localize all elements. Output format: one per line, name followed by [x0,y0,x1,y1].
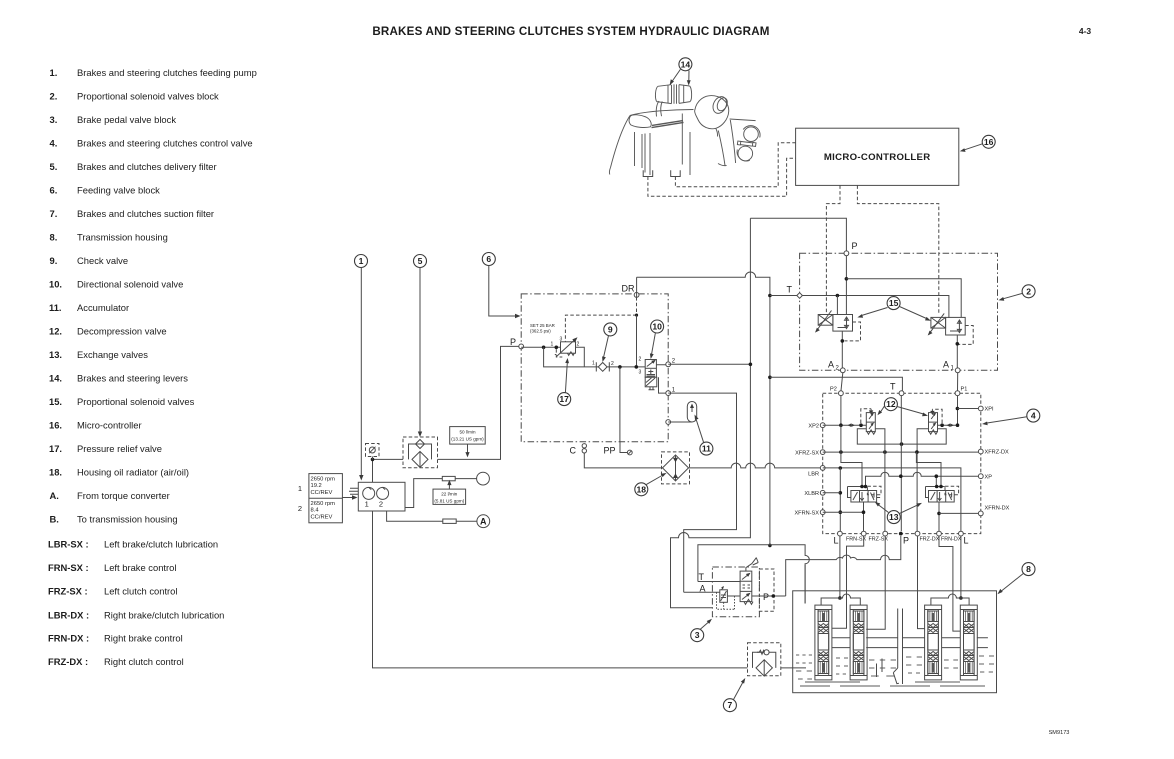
svg-text:SET 25 BAR: SET 25 BAR [530,323,555,328]
svg-text:DR: DR [622,284,635,294]
svg-text:Right brake/clutch lubrication: Right brake/clutch lubrication [104,610,224,621]
svg-text:16.: 16. [49,420,62,431]
svg-text:Pressure relief valve: Pressure relief valve [77,443,162,454]
svg-text:1: 1 [359,256,364,266]
svg-text:FRN-SX :: FRN-SX : [48,562,89,573]
svg-text:1: 1 [592,361,595,367]
svg-text:XFRN-SX: XFRN-SX [794,510,819,516]
svg-text:2: 2 [1026,286,1031,296]
svg-text:15: 15 [889,298,899,308]
svg-text:P: P [903,536,909,546]
svg-text:11.: 11. [49,302,62,313]
svg-text:LBR: LBR [808,472,819,478]
svg-text:FRZ-DX :: FRZ-DX : [48,656,88,667]
svg-text:2.: 2. [50,91,58,102]
svg-text:5: 5 [418,256,423,266]
svg-text:3: 3 [695,630,700,640]
svg-text:Micro-controller: Micro-controller [77,420,142,431]
svg-text:1: 1 [672,387,676,393]
svg-text:7.: 7. [50,208,58,219]
svg-text:XFRZ-DX: XFRZ-DX [985,450,1010,456]
svg-text:FRN-DX: FRN-DX [941,537,962,543]
svg-text:2: 2 [298,504,302,513]
svg-text:SM9173: SM9173 [1049,730,1070,736]
svg-text:L: L [834,536,839,546]
svg-text:3.: 3. [50,114,58,125]
svg-text:PP: PP [604,446,616,456]
svg-text:Decompression valve: Decompression valve [77,326,167,337]
svg-text:4: 4 [1031,411,1036,421]
svg-text:18: 18 [637,484,647,494]
svg-text:C: C [570,446,577,456]
svg-text:Brakes and steering levers: Brakes and steering levers [77,373,188,384]
svg-text:8: 8 [1026,564,1031,574]
svg-text:XLBR: XLBR [804,491,819,497]
svg-text:5.: 5. [50,161,58,172]
svg-text:Transmission housing: Transmission housing [77,232,168,243]
svg-text:XPI: XPI [985,407,994,413]
svg-text:(5.81 US gpm): (5.81 US gpm) [434,498,464,503]
svg-text:P: P [852,241,858,251]
svg-text:4-3: 4-3 [1079,26,1092,36]
svg-text:6.: 6. [50,185,58,196]
svg-text:LBR-DX :: LBR-DX : [48,610,89,621]
svg-text:1: 1 [298,484,302,493]
svg-text:1: 1 [551,341,554,347]
svg-text:Left brake/clutch lubrication: Left brake/clutch lubrication [104,539,218,550]
svg-text:T: T [699,572,705,582]
svg-text:P: P [510,337,516,347]
svg-text:1.: 1. [50,67,58,78]
svg-text:T: T [890,382,896,392]
svg-text:2: 2 [379,500,383,509]
svg-text:MICRO-CONTROLLER: MICRO-CONTROLLER [824,152,931,163]
svg-text:T: T [787,285,793,295]
svg-text:B.: B. [50,514,59,525]
svg-text:10: 10 [652,322,662,332]
svg-text:Right brake control: Right brake control [104,633,183,644]
svg-text:1: 1 [951,366,955,372]
svg-text:Right clutch control: Right clutch control [104,656,184,667]
svg-text:XP2: XP2 [808,424,819,430]
svg-text:XFRZ-SX: XFRZ-SX [795,450,819,456]
svg-text:9.: 9. [50,255,58,266]
svg-text:Proportional solenoid valves b: Proportional solenoid valves block [77,91,219,102]
svg-text:CC/REV: CC/REV [311,515,333,521]
svg-text:P1: P1 [961,387,968,393]
svg-text:BRAKES AND STEERING CLUTCHES S: BRAKES AND STEERING CLUTCHES SYSTEM HYDR… [372,25,769,38]
svg-text:2: 2 [672,359,676,365]
svg-text:4.: 4. [50,138,58,149]
svg-text:2650 rpm: 2650 rpm [311,477,336,483]
svg-text:1: 1 [365,500,369,509]
svg-text:14: 14 [681,59,691,69]
svg-text:Check valve: Check valve [77,255,128,266]
svg-text:A: A [828,360,834,370]
svg-text:P2: P2 [830,387,837,393]
svg-text:Left clutch control: Left clutch control [104,586,177,597]
svg-text:9: 9 [608,324,613,334]
svg-text:Directional solenoid valve: Directional solenoid valve [77,279,183,290]
svg-text:A: A [943,360,949,370]
svg-text:2650 rpm: 2650 rpm [311,501,336,507]
svg-text:2: 2 [639,357,642,363]
svg-text:12.: 12. [49,326,62,337]
svg-text:(362.5 psi): (362.5 psi) [530,329,551,334]
svg-text:FRZ-DX: FRZ-DX [920,537,940,543]
svg-text:13.: 13. [49,349,62,360]
svg-text:15.: 15. [49,396,62,407]
svg-text:11: 11 [702,444,711,454]
svg-text:50 l/min: 50 l/min [459,430,476,435]
svg-text:6: 6 [486,254,491,264]
svg-text:2: 2 [611,361,614,367]
svg-text:Accumulator: Accumulator [77,302,129,313]
svg-text:P: P [763,592,769,602]
svg-text:FRN-DX :: FRN-DX : [48,633,89,644]
svg-text:17: 17 [559,394,569,404]
svg-text:2: 2 [577,341,580,347]
svg-text:(13.21 US gpm): (13.21 US gpm) [451,437,484,442]
svg-text:13: 13 [889,512,899,522]
svg-text:18.: 18. [49,467,62,478]
svg-text:LBR-SX :: LBR-SX : [48,539,89,550]
svg-text:XFRN-DX: XFRN-DX [985,506,1010,512]
svg-text:19.2: 19.2 [311,483,322,489]
svg-text:Proportional solenoid valves: Proportional solenoid valves [77,396,195,407]
svg-text:14.: 14. [49,373,62,384]
svg-text:XP: XP [985,474,993,480]
svg-text:Brakes and steering clutches c: Brakes and steering clutches control val… [77,138,253,149]
svg-text:Left brake control: Left brake control [104,562,176,573]
svg-text:3: 3 [639,369,642,375]
svg-text:3: 3 [560,337,563,343]
svg-text:22 l/min: 22 l/min [441,492,458,497]
svg-text:A.: A. [50,490,59,501]
svg-text:16: 16 [984,137,994,147]
svg-text:Housing oil radiator (air/oil): Housing oil radiator (air/oil) [77,467,189,478]
svg-text:CC/REV: CC/REV [311,490,333,496]
svg-text:Feeding valve block: Feeding valve block [77,185,160,196]
svg-text:To transmission housing: To transmission housing [77,514,178,525]
svg-text:Exchange valves: Exchange valves [77,349,148,360]
svg-text:Brake pedal valve block: Brake pedal valve block [77,114,176,125]
svg-text:8.: 8. [50,232,58,243]
svg-text:Brakes and clutches delivery f: Brakes and clutches delivery filter [77,161,217,172]
svg-text:12: 12 [886,399,896,409]
svg-text:17.: 17. [49,443,62,454]
svg-text:8.4: 8.4 [311,508,320,514]
svg-text:From torque converter: From torque converter [77,490,170,501]
svg-text:Brakes and steering clutches f: Brakes and steering clutches feeding pum… [77,67,257,78]
svg-text:Brakes and clutches suction fi: Brakes and clutches suction filter [77,208,214,219]
svg-text:A: A [480,517,487,527]
svg-text:7: 7 [728,700,733,710]
svg-text:FRZ-SX :: FRZ-SX : [48,586,88,597]
svg-text:L: L [964,536,969,546]
svg-text:10.: 10. [49,279,62,290]
